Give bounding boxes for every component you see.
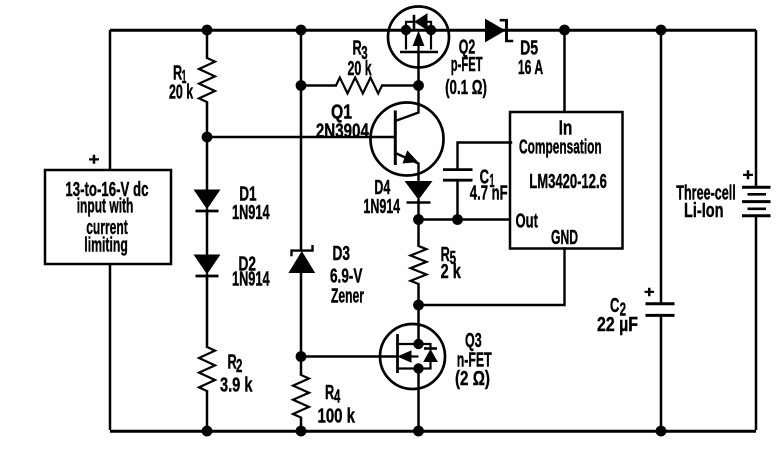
- svg-text:+: +: [644, 284, 655, 301]
- svg-text:GND: GND: [551, 227, 578, 249]
- resistor R3: [336, 78, 382, 94]
- diode D2: [195, 255, 220, 274]
- node Q2 gate / R3 / Q1 collector: [413, 80, 424, 91]
- node D4-R5-Out junction: [413, 214, 424, 225]
- Q2 body diode: [415, 14, 427, 30]
- wire D2 to R2: [206, 278, 209, 347]
- svg-text:Zener: Zener: [331, 286, 364, 308]
- diode D1: [195, 190, 220, 209]
- svg-text:20 k: 20 k: [348, 58, 373, 80]
- node In pin junction: [559, 25, 570, 36]
- battery plate 4: [748, 208, 767, 211]
- wire D1 to D2: [206, 213, 209, 255]
- svg-text:22 µF: 22 µF: [597, 314, 638, 336]
- wire R3 left lead: [301, 84, 336, 87]
- Q1 emitter: [395, 153, 418, 182]
- Q3 substrate arrow: [399, 351, 412, 362]
- svg-text:Q3: Q3: [465, 330, 482, 352]
- wire Q3 gate: [301, 355, 398, 358]
- zener D3: [289, 252, 314, 273]
- op-amp U1 LM3420 box: [510, 112, 623, 249]
- battery plate 2: [748, 193, 767, 196]
- Q3 source contact: [398, 367, 419, 369]
- Q2 channel contact left: [405, 30, 407, 50]
- wire R4 bottom lead: [300, 418, 303, 431]
- node C1 bottom junction: [452, 214, 463, 225]
- diode D4: [406, 182, 432, 200]
- wire C2 top lead: [660, 30, 663, 303]
- resistor R5: [411, 246, 427, 284]
- wire Q1 base: [207, 136, 395, 139]
- Q2 body diode riser right: [427, 22, 431, 30]
- node R5-GND-Q3 junction: [413, 300, 424, 311]
- wire left vertical input bottom: [109, 264, 112, 430]
- svg-text:20 k: 20 k: [169, 81, 194, 103]
- resistor R1: [199, 58, 215, 102]
- battery plate 1: [742, 186, 771, 189]
- wire Q2 gate to node: [417, 52, 420, 86]
- svg-text:Out: Out: [516, 210, 539, 232]
- Q2 channel contact right: [430, 30, 432, 50]
- Q3 channel bar: [396, 334, 399, 373]
- svg-text:+: +: [743, 166, 754, 185]
- wire R3 right lead: [382, 84, 419, 87]
- wire R1 to D1: [206, 102, 209, 190]
- node C2 top junction: [656, 25, 667, 36]
- node Q2 source terminal: [401, 25, 411, 35]
- Q1 base bar: [394, 111, 397, 166]
- zener D3 cathode bar: [292, 246, 313, 255]
- wire Q3 source to rail: [417, 369, 420, 431]
- wire right vertical from battery: [755, 216, 758, 430]
- Q1 emitter arrow: [403, 151, 417, 163]
- Q3 body diode: [424, 350, 437, 362]
- svg-text:(0.1 Ω): (0.1 Ω): [445, 77, 487, 99]
- svg-text:(2 Ω): (2 Ω): [455, 368, 490, 390]
- wire R1 top lead: [206, 30, 209, 58]
- Q2 substrate arrow: [413, 32, 423, 46]
- wire R5 top lead: [417, 220, 420, 247]
- wire R5 bottom lead: [417, 284, 420, 324]
- transistor Q2 body circle: [388, 7, 449, 68]
- resistor R2: [199, 347, 215, 391]
- D5 cathode bar: [501, 20, 512, 41]
- node Q2 drain terminal: [426, 25, 436, 35]
- battery plate 5: [742, 214, 771, 217]
- svg-text:2 k: 2 k: [441, 261, 462, 283]
- svg-text:2N3904: 2N3904: [316, 121, 370, 143]
- node bottom rail Q3: [413, 426, 424, 437]
- svg-text:1N914: 1N914: [232, 202, 270, 224]
- node R1-D1-base junction: [202, 132, 213, 143]
- Q3 drain contact: [398, 343, 419, 345]
- Q3 body diode riser bottom: [419, 362, 431, 369]
- wire In pin: [563, 30, 566, 112]
- resistor R4: [293, 375, 309, 418]
- Q2 gate bar: [400, 51, 438, 54]
- svg-text:100 k: 100 k: [318, 406, 356, 428]
- battery plate 3: [742, 200, 771, 203]
- wire Out pin: [419, 218, 512, 221]
- input source box: [45, 170, 171, 264]
- svg-text:Compensation: Compensation: [519, 136, 602, 158]
- svg-text:4: 4: [334, 386, 341, 407]
- svg-text:D3: D3: [333, 243, 351, 265]
- Q3 body diode riser top: [419, 344, 431, 349]
- node Q3 drain terminal: [413, 339, 423, 349]
- wire bottom rail: [110, 430, 756, 433]
- svg-text:4.7 nF: 4.7 nF: [470, 183, 508, 205]
- wire C2 bottom lead: [660, 315, 663, 430]
- svg-text:+: +: [89, 150, 100, 169]
- wire right vertical to battery: [755, 30, 758, 187]
- wire D4 to out node: [417, 199, 420, 220]
- wire D3 to junction: [300, 272, 303, 375]
- svg-text:LM3420-12.6: LM3420-12.6: [529, 171, 607, 193]
- node top rail R1: [202, 25, 213, 36]
- node top rail zener column: [296, 25, 307, 36]
- capacitor C1: [443, 179, 473, 182]
- wire C1 bottom lead: [456, 181, 459, 220]
- wire R2 bottom lead: [206, 391, 209, 430]
- node bottom rail R2: [202, 426, 213, 437]
- svg-text:1N914: 1N914: [363, 196, 400, 218]
- svg-text:p-FET: p-FET: [451, 54, 483, 76]
- Q1 collector: [395, 86, 418, 122]
- Q2 body diode bar: [413, 15, 416, 29]
- node D3-R4-gate junction: [296, 351, 307, 362]
- node C2 bottom junction: [656, 426, 667, 437]
- wire Q3 drain: [417, 324, 420, 344]
- wire zener column top: [300, 30, 303, 251]
- svg-text:16 A: 16 A: [518, 57, 543, 79]
- svg-text:limiting: limiting: [84, 235, 128, 257]
- svg-text:input with: input with: [77, 196, 134, 218]
- svg-text:2: 2: [236, 355, 242, 376]
- transistor Q1 body circle: [371, 103, 444, 176]
- svg-text:3.9 k: 3.9 k: [220, 375, 253, 397]
- node Q3 source terminal: [413, 363, 423, 373]
- svg-text:6.9-V: 6.9-V: [330, 266, 363, 288]
- capacitor C2: [646, 302, 675, 305]
- wire GND pin: [419, 249, 565, 306]
- node R3 left junction: [296, 80, 307, 91]
- svg-text:1N914: 1N914: [232, 269, 270, 291]
- diode D5: [486, 20, 505, 42]
- node bottom rail R4: [296, 426, 307, 437]
- svg-text:Li-Ion: Li-Ion: [684, 200, 724, 222]
- wire C1 top lead: [458, 143, 512, 170]
- wire left vertical input top: [109, 30, 112, 170]
- Q2 body diode riser left: [406, 22, 413, 30]
- transistor Q3 body circle: [380, 324, 445, 389]
- wire top rail: [110, 29, 756, 32]
- Q3 body diode bar: [424, 347, 437, 350]
